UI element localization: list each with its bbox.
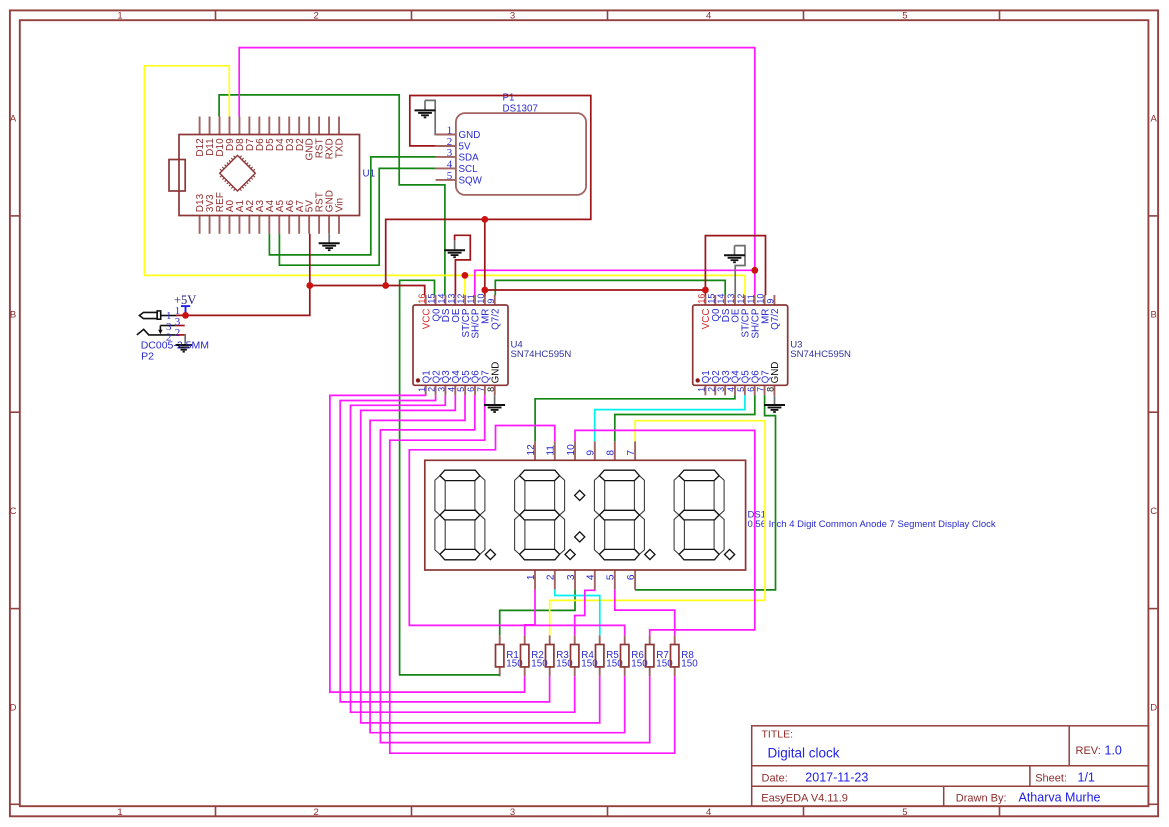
svg-text:Digital clock: Digital clock	[768, 745, 840, 760]
svg-text:2: 2	[175, 327, 181, 339]
svg-text:5: 5	[736, 387, 746, 392]
svg-text:2: 2	[546, 574, 557, 580]
svg-text:DS1307: DS1307	[503, 104, 538, 115]
svg-text:Q7/2: Q7/2	[770, 309, 781, 330]
svg-text:2: 2	[314, 10, 319, 21]
svg-text:3: 3	[716, 387, 726, 392]
svg-text:6: 6	[626, 574, 637, 580]
svg-text:11: 11	[466, 294, 476, 303]
svg-text:SCL: SCL	[459, 164, 479, 175]
svg-text:Q7/2: Q7/2	[490, 309, 501, 330]
svg-text:4: 4	[726, 387, 736, 392]
svg-text:TXD: TXD	[335, 138, 346, 158]
svg-text:GND: GND	[459, 130, 481, 141]
svg-text:1: 1	[117, 10, 122, 21]
svg-text:U1: U1	[363, 168, 376, 179]
svg-text:4: 4	[706, 807, 711, 818]
svg-text:A: A	[1151, 113, 1158, 124]
svg-text:3: 3	[510, 10, 515, 21]
svg-text:Atharva Murhe: Atharva Murhe	[1019, 790, 1101, 804]
svg-text:SQW: SQW	[459, 175, 483, 186]
svg-text:4: 4	[446, 387, 456, 392]
svg-text:A: A	[10, 113, 17, 124]
svg-text:10: 10	[756, 294, 766, 304]
svg-text:1.0: 1.0	[1105, 744, 1122, 758]
svg-text:1: 1	[697, 387, 707, 392]
svg-text:EasyEDA V4.11.9: EasyEDA V4.11.9	[761, 792, 848, 804]
svg-text:2: 2	[314, 807, 319, 818]
svg-text:P2: P2	[141, 350, 154, 362]
svg-text:150: 150	[681, 659, 698, 670]
svg-text:1: 1	[417, 387, 427, 392]
svg-text:SN74HC595N: SN74HC595N	[790, 349, 851, 360]
svg-text:12: 12	[526, 444, 537, 456]
svg-text:9: 9	[766, 299, 776, 304]
svg-text:Drawn By:: Drawn By:	[956, 792, 1007, 804]
svg-text:SN74HC595N: SN74HC595N	[511, 349, 572, 360]
svg-text:8: 8	[606, 450, 617, 456]
svg-text:D: D	[10, 702, 17, 713]
svg-text:6: 6	[466, 387, 476, 392]
svg-text:P1: P1	[503, 93, 515, 104]
svg-text:3: 3	[437, 387, 447, 392]
svg-text:1: 1	[117, 807, 122, 818]
svg-text:Sheet:: Sheet:	[1035, 772, 1067, 784]
svg-text:D: D	[1150, 702, 1157, 713]
svg-text:15: 15	[706, 294, 716, 304]
svg-text:9: 9	[486, 299, 496, 304]
svg-text:Date:: Date:	[762, 772, 788, 784]
svg-text:B: B	[10, 310, 16, 321]
svg-text:SDA: SDA	[459, 152, 480, 163]
svg-text:REV:: REV:	[1076, 745, 1101, 757]
svg-text:3: 3	[566, 574, 577, 580]
svg-text:4: 4	[447, 159, 453, 171]
svg-text:B: B	[1151, 310, 1157, 321]
svg-text:1: 1	[526, 574, 537, 580]
svg-text:5: 5	[606, 574, 617, 580]
svg-text:Vin: Vin	[335, 198, 346, 212]
svg-text:6: 6	[746, 387, 756, 392]
svg-text:10: 10	[566, 444, 577, 456]
svg-text:5: 5	[447, 170, 453, 182]
svg-text:TITLE:: TITLE:	[762, 729, 794, 741]
svg-text:3: 3	[447, 147, 453, 159]
svg-text:2: 2	[427, 387, 437, 392]
svg-text:7: 7	[756, 387, 766, 392]
svg-text:GND: GND	[490, 362, 501, 384]
svg-text:7: 7	[626, 450, 637, 456]
svg-text:8: 8	[486, 387, 496, 392]
svg-text:9: 9	[586, 450, 597, 456]
svg-text:GND: GND	[770, 362, 781, 384]
svg-text:C: C	[10, 506, 17, 517]
svg-text:5: 5	[902, 807, 907, 818]
svg-text:1: 1	[447, 125, 453, 137]
svg-text:4: 4	[586, 574, 597, 580]
svg-text:2: 2	[706, 387, 716, 392]
svg-text:1/1: 1/1	[1078, 770, 1095, 784]
svg-text:2017-11-23: 2017-11-23	[805, 770, 868, 784]
svg-text:+5V: +5V	[174, 293, 196, 307]
svg-text:7: 7	[476, 387, 486, 392]
svg-text:5V: 5V	[459, 141, 471, 152]
svg-text:0.56 Inch 4 Digit Common Anode: 0.56 Inch 4 Digit Common Anode 7 Segment…	[748, 519, 996, 530]
svg-text:C: C	[1150, 506, 1157, 517]
svg-text:5: 5	[456, 387, 466, 392]
svg-text:11: 11	[746, 294, 756, 303]
svg-text:4: 4	[706, 10, 711, 21]
svg-text:5: 5	[902, 10, 907, 21]
svg-text:8: 8	[766, 387, 776, 392]
svg-text:3: 3	[510, 807, 515, 818]
svg-text:11: 11	[546, 445, 557, 456]
